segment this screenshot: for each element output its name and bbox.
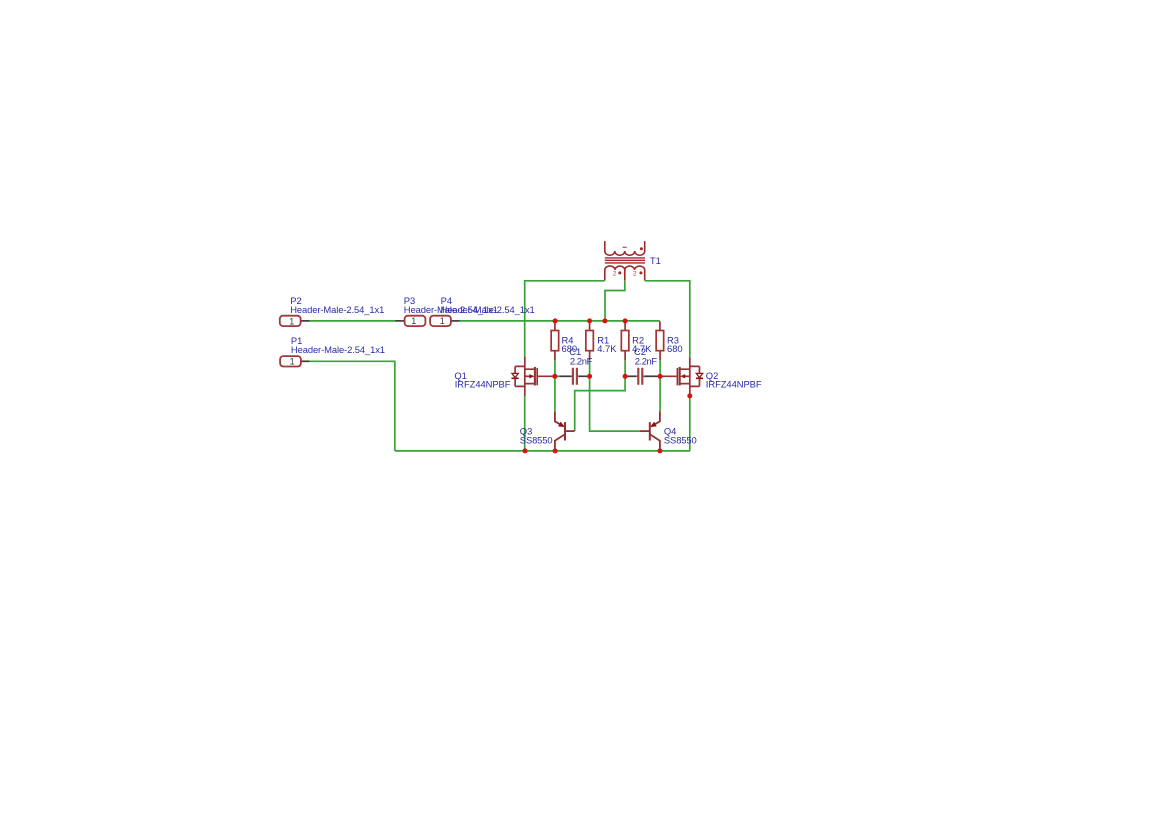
svg-text:2: 2 [613, 271, 617, 278]
transformer T1 [605, 241, 645, 280]
junction top rail R4 [553, 318, 558, 323]
svg-text:SS8550: SS8550 [664, 435, 697, 446]
resistor R1 [586, 321, 594, 360]
wire transformer left lead to left rail [525, 281, 605, 357]
label C1 [569, 346, 592, 366]
label R1 [597, 335, 617, 354]
resistor R4 [551, 321, 559, 360]
label P3 [404, 295, 498, 315]
wire R4 bottom to gate node [554, 360, 556, 376]
header P3 [395, 316, 425, 326]
label P4 [441, 295, 535, 315]
junction node R1 C1 [587, 374, 592, 379]
pin number P2 [289, 316, 294, 326]
junction Q2 source [687, 393, 692, 398]
wire P2 to P3 [310, 320, 396, 322]
svg-text:SS8550: SS8550 [520, 435, 553, 446]
wire P1 to bottom rail [310, 361, 395, 451]
wire Q1 source to bottom rail [524, 396, 526, 451]
wire R3 bottom to node [659, 360, 661, 376]
junction top rail R2 [623, 318, 628, 323]
label R3 [667, 335, 683, 354]
wire R1 bottom to node [589, 360, 591, 376]
wire stub C2 right [658, 375, 661, 377]
capacitor C1 [560, 368, 588, 385]
pin number P3 [411, 316, 416, 326]
wire stub C1 right [587, 375, 589, 377]
junction gate node Q2 [658, 374, 663, 379]
label C2 [634, 346, 657, 366]
label Q1 [454, 370, 510, 390]
svg-text:680: 680 [667, 343, 683, 354]
transistor Q4 [640, 411, 660, 451]
wire node R2 to Q3 base [575, 376, 625, 431]
mosfet Q2 [660, 357, 703, 396]
wire transformer right lead to right rail [645, 281, 690, 357]
label Q3 [520, 425, 553, 445]
junction node R2 C2 [623, 374, 628, 379]
wire P4 to top rail [460, 320, 660, 322]
wire node R1 to Q4 base [590, 376, 640, 431]
mosfet Q1 [512, 356, 555, 396]
header P1 [280, 356, 310, 366]
label R2 [632, 335, 652, 354]
svg-text:2: 2 [633, 271, 637, 278]
wire Q4 emitter [659, 376, 661, 411]
svg-text:Header-Male-2.54_1x1: Header-Male-2.54_1x1 [291, 344, 385, 355]
transformer pin mark 2 left [613, 271, 617, 278]
junction bottom rail Q4 [657, 448, 662, 453]
label Q4 [664, 425, 697, 445]
svg-text:2.2nF: 2.2nF [635, 356, 658, 367]
svg-text:4.7K: 4.7K [597, 343, 617, 354]
transformer pin mark 2 right [633, 271, 637, 278]
junction bottom rail Q3 [553, 448, 558, 453]
capacitor C2 [627, 368, 657, 385]
wire bottom rail [395, 450, 690, 452]
pin number P4 [440, 316, 445, 326]
label P2 [290, 295, 384, 315]
header P2 [280, 316, 310, 326]
wire stub C1 left [555, 375, 560, 377]
label P1 [291, 335, 385, 355]
svg-text:IRFZ44NPBF: IRFZ44NPBF [455, 379, 511, 390]
wire Q3 emitter [554, 376, 556, 411]
wire transformer center tap to rail [605, 280, 625, 321]
svg-text:Header-Male-2.54_1x1: Header-Male-2.54_1x1 [441, 304, 535, 315]
svg-text:Header-Male-2.54_1x1: Header-Male-2.54_1x1 [290, 304, 384, 315]
svg-text:1: 1 [289, 316, 294, 326]
label Q2 [706, 370, 762, 390]
wire Q2 source to bottom rail [689, 396, 691, 451]
wire stub C2 left [625, 375, 627, 377]
header P4 [430, 316, 460, 326]
pin number P1 [290, 357, 295, 367]
resistor R2 [621, 321, 629, 360]
wire R2 bottom to node [624, 360, 626, 376]
label R4 [562, 335, 578, 354]
junction top rail R1 [587, 318, 592, 323]
transistor Q3 [555, 411, 575, 451]
svg-text:1: 1 [440, 316, 445, 326]
junction top rail center tap [602, 318, 607, 323]
label T1 [650, 255, 661, 266]
svg-text:IRFZ44NPBF: IRFZ44NPBF [706, 379, 762, 390]
junction gate node Q1 [552, 374, 557, 379]
svg-text:1: 1 [290, 357, 295, 367]
junction bottom rail Q1 [523, 448, 528, 453]
svg-text:1: 1 [411, 316, 416, 326]
resistor R3 [656, 321, 664, 360]
svg-text:2.2nF: 2.2nF [570, 356, 593, 367]
svg-text:T1: T1 [650, 255, 661, 266]
